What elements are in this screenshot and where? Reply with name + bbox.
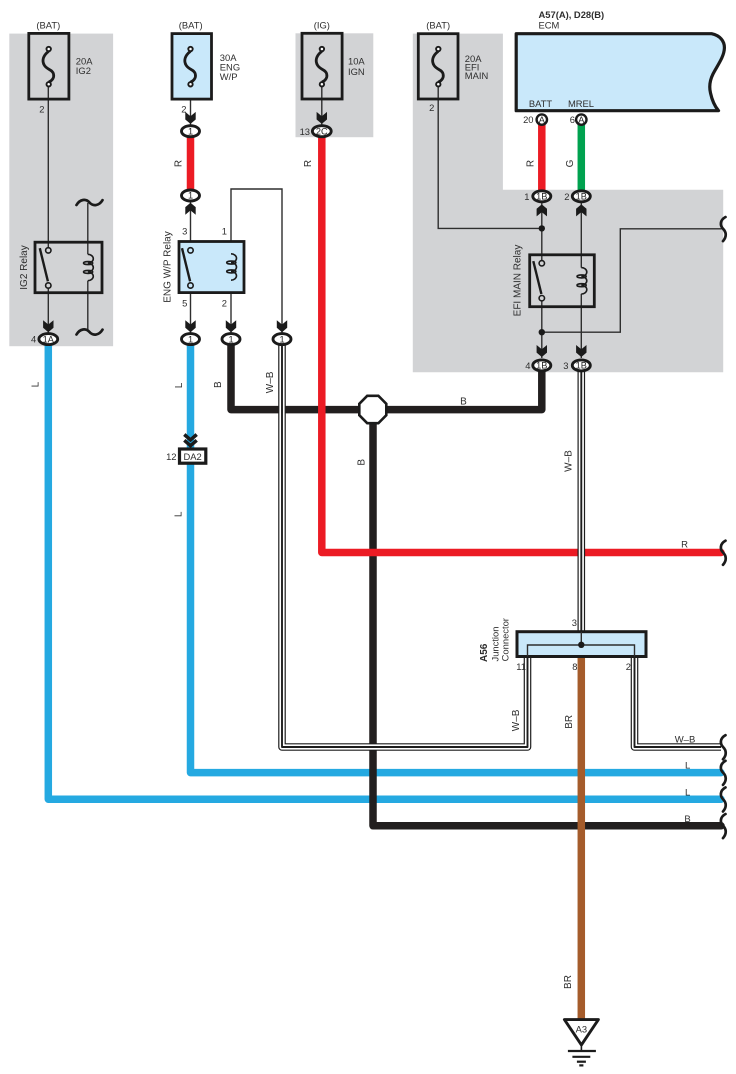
relay IG2 [19,242,102,293]
svg-text:BR: BR [564,715,575,729]
wire: BR A56 pin8 to ground A3 (brown) [578,655,586,1019]
wire: fuse EFI MAIN to EFI relay (thin) [438,86,542,228]
arrow into connector 1 (fuse F2) [185,112,195,124]
break squiggle L1 right edge [721,761,726,785]
svg-text:2C: 2C [316,126,328,136]
wire: ENG W/P relay coil loop pin1 to W-B connector (thin) [231,189,282,333]
svg-text:1B: 1B [576,192,587,202]
svg-text:1B: 1B [536,361,547,371]
arrow into connector 2C [317,112,327,124]
connector oval 1 (below F2) [182,126,200,137]
ECM block A57(A), D28(B) [516,9,724,111]
wire: G ECM MREL to 1B (green) [578,124,586,191]
arrow into 1B pin4 [537,345,547,357]
svg-text:2: 2 [564,191,569,202]
connector oval 1 (pin1 branch) [273,334,291,345]
svg-text:1: 1 [524,191,529,202]
wire: R from connector 2C to right edge (red) [322,136,721,553]
node: octagon junction [359,396,386,423]
svg-text:B: B [357,459,368,466]
wire: IG2 relay coil branch (thin) [48,203,88,333]
svg-text:(BAT): (BAT) [36,19,60,30]
svg-text:8: 8 [572,661,577,672]
connector oval 1 (above ENG W/P relay) [182,190,200,201]
ground A3 [564,1020,598,1066]
arrow up (below 1B pin2) [576,204,586,216]
shield: IG2 circuit gray background [9,34,113,347]
svg-text:10A: 10A [348,55,365,66]
connector oval 1 (pin2) [222,334,240,345]
wire: fuse ENG W/P to connector (thin) [190,86,192,126]
arrow up (below 1B pin1) [537,204,547,216]
svg-text:4: 4 [525,360,530,371]
shield: IGN circuit gray background [296,33,374,137]
svg-text:1: 1 [279,334,284,344]
wire: EFI relay switch chain (thin) [541,202,543,358]
wire: connector to ENG W/P relay pin3 (thin) [190,202,192,333]
break tilde below IG2 coil [77,329,103,334]
connector oval 1 (pin5) [182,334,200,345]
svg-text:A: A [539,115,546,125]
connector oval 1A [39,334,58,345]
svg-text:W–B: W–B [564,450,575,472]
arrow into 1B pin3 [576,345,586,357]
break squiggle thin wire right edge [721,217,726,241]
relay ENG W/P [162,226,244,309]
wire: R fuse ENG W/P to connector (red) [187,131,195,195]
svg-text:G: G [565,159,576,167]
svg-text:R: R [173,160,184,167]
svg-text:12: 12 [166,451,176,462]
svg-text:W–B: W–B [265,371,276,393]
svg-text:L: L [685,787,690,798]
connector oval 1B (pin3) [563,360,590,371]
svg-text:L: L [30,381,41,387]
svg-text:1A: 1A [43,334,55,344]
shield: EFI circuit gray background [413,34,723,373]
ECM pin 20 circle A [523,114,547,125]
svg-text:13: 13 [300,126,310,137]
wire: W-B A56 pin2 to right edge [635,655,722,747]
connector oval 1B (pin4) [525,360,551,371]
svg-text:DA2: DA2 [183,451,201,462]
svg-text:20: 20 [523,114,533,125]
svg-text:2: 2 [222,298,227,309]
wire: B from ENG W/P relay pin2 to EFI relay pin4 (black) [231,344,542,410]
arrow up (into oval above ENG W/P relay) [185,203,195,215]
svg-text:L: L [174,382,185,388]
svg-text:B: B [460,397,467,408]
svg-text:1: 1 [222,226,227,237]
svg-text:3: 3 [563,360,568,371]
wire: EFI relay to right edge loop (thin) [542,229,722,332]
wire: L from ENG W/P relay pin5 to right edge (blue) [191,344,722,773]
break squiggle W-B right edge [721,735,726,759]
wire: L from IG2 relay 1A to right edge (blue) [48,344,721,799]
node: junction dot EFI relay top [539,225,545,231]
svg-text:(BAT): (BAT) [426,19,450,30]
svg-text:R: R [681,539,688,550]
connector DA2 chevrons [184,435,196,446]
svg-text:3: 3 [572,617,577,628]
svg-text:A56: A56 [479,643,490,662]
svg-text:2: 2 [626,661,631,672]
svg-text:1B: 1B [536,192,547,202]
svg-text:1B: 1B [576,361,587,371]
relay EFI MAIN [512,245,594,317]
svg-text:5: 5 [182,298,187,309]
wire: EFI relay coil chain (thin) [580,202,582,358]
svg-text:W/P: W/P [220,71,238,82]
svg-text:MAIN: MAIN [465,70,488,81]
svg-text:B: B [213,381,224,388]
wire: W-B from ENG W/P relay pin1 to A56 pin11 [282,344,528,747]
break tilde above IG2 coil [77,200,103,205]
connector DA2 box [180,449,206,463]
junction connector A56 [479,617,646,672]
svg-text:ENG W/P Relay: ENG W/P Relay [162,231,173,303]
svg-text:IG2: IG2 [76,65,91,76]
svg-text:2: 2 [429,102,434,113]
svg-text:4: 4 [31,334,36,345]
arrow into oval pin2 [226,320,236,332]
svg-text:A: A [578,115,585,125]
fuse F3 10A IGN [302,19,365,99]
wire: coil bottom pin2 (thin) [230,280,232,333]
svg-text:EFI MAIN Relay: EFI MAIN Relay [512,245,523,317]
arrow into oval pin5 [185,320,195,332]
svg-text:L: L [685,761,690,772]
svg-text:2: 2 [39,103,44,114]
wire: R ECM BATT to 1B (red) [538,124,546,191]
svg-text:IG2 Relay: IG2 Relay [19,245,30,289]
fuse F2 30A ENG W/P [172,19,240,114]
svg-text:1: 1 [228,334,233,344]
connector oval 2C [312,126,331,137]
wire: B from junction node down to right edge (black) [373,410,721,826]
connector oval 1B (pin 1) [524,191,551,202]
svg-text:ECM: ECM [539,19,560,30]
wire: fuse IGN to connector 2C (thin) [321,86,323,126]
arrow into oval pin1 branch [277,320,287,332]
svg-text:R: R [303,160,314,167]
svg-text:B: B [684,814,690,825]
node: junction dot EFI relay bottom [539,329,545,335]
fuse F4 20A EFI MAIN [418,19,488,113]
svg-text:1: 1 [188,126,193,136]
svg-text:Connector: Connector [499,618,510,661]
svg-text:MREL: MREL [568,98,594,109]
break squiggle B right edge [721,814,726,838]
svg-text:W–B: W–B [675,735,696,746]
svg-text:BATT: BATT [529,98,553,109]
svg-text:1: 1 [188,334,193,344]
fuse F1 20A IG2 [29,19,93,114]
arrow into 1A [43,320,53,332]
break squiggle R right edge [721,541,726,565]
wire: W-B EFI relay pin3 to A56 pin3 [577,371,585,635]
wire: fuse IG2 to relay IG2 (thin) [47,86,49,250]
ECM pin 6 circle A [570,114,587,125]
svg-text:W–B: W–B [511,709,522,731]
svg-text:IGN: IGN [348,66,365,77]
svg-text:11: 11 [516,661,526,672]
svg-text:1: 1 [188,191,193,201]
svg-text:6: 6 [570,114,575,125]
svg-text:R: R [526,160,537,167]
svg-text:3: 3 [182,226,187,237]
connector oval 1B (pin 2) [564,191,590,202]
svg-text:(IG): (IG) [314,19,330,30]
svg-text:A3: A3 [576,1024,587,1035]
svg-text:(BAT): (BAT) [179,19,203,30]
svg-text:L: L [174,511,185,517]
break squiggle L2 right edge [721,787,726,811]
svg-text:BR: BR [563,975,574,989]
